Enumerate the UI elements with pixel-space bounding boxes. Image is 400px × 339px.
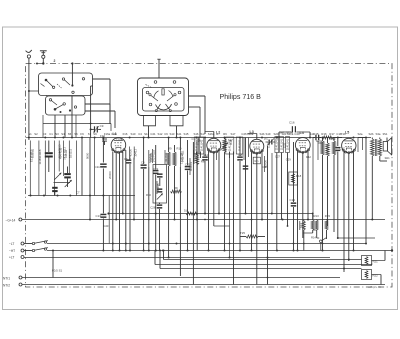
svg-text:1B1111: 1B1111	[68, 149, 72, 158]
svg-text:9000: 9000	[85, 152, 89, 159]
wire v mid168	[168, 275, 170, 277]
labels component row	[28, 132, 388, 136]
svg-text:F16a: F16a	[104, 132, 111, 136]
terminal G14	[6, 218, 22, 222]
wire bus NTr1	[22, 277, 340, 279]
capacitor C10	[100, 134, 123, 145]
svg-text:R6: R6	[223, 132, 227, 136]
coil S19	[275, 137, 279, 251]
svg-text:C25: C25	[185, 163, 190, 167]
wire bus HT cont	[47, 250, 392, 252]
resistor S14	[302, 220, 305, 251]
coil S12b	[152, 149, 156, 163]
svg-text:C26: C26	[238, 153, 243, 157]
node fuse joint	[52, 250, 54, 252]
rotary switch box inner	[143, 88, 185, 112]
wire step 226	[287, 225, 289, 227]
svg-text:S16: S16	[196, 139, 201, 143]
wire v54	[53, 141, 55, 196]
node earth-chassis junction	[42, 62, 44, 64]
wire bus G14	[22, 219, 385, 221]
svg-text:R13: R13	[314, 214, 320, 218]
rotary dash mark	[146, 85, 152, 88]
svg-text:10411: 10411	[133, 149, 137, 157]
wire R16 to L5	[333, 137, 342, 139]
labels vertical values	[32, 137, 287, 162]
rotary pin 1	[154, 81, 157, 84]
label 20000	[108, 171, 112, 179]
wire osc v1	[192, 142, 194, 285]
wire rotary right 2	[189, 107, 201, 138]
chassis dash-dot boundary	[26, 64, 392, 288]
wire sw drop 4	[71, 96, 73, 138]
svg-text:S4: S4	[61, 132, 65, 136]
tube L2	[207, 138, 221, 153]
svg-text:C16: C16	[289, 120, 295, 124]
svg-text:R16a: R16a	[316, 139, 323, 143]
labels R13 R15	[311, 214, 330, 240]
label Philips 716 B	[220, 93, 262, 101]
switch contact i	[60, 111, 62, 113]
rotary lever 1	[149, 94, 158, 101]
wire v45	[44, 141, 46, 196]
wire antenna lead down	[28, 58, 39, 140]
svg-text:S+6: S+6	[279, 131, 284, 135]
switch contact e	[41, 84, 45, 87]
svg-text:1411-4111: 1411-4111	[181, 150, 184, 162]
node bus joints A	[122, 213, 273, 215]
svg-text:C19: C19	[290, 198, 296, 202]
switch contact c	[71, 84, 74, 93]
svg-text:11111: 11111	[268, 141, 271, 148]
svg-text:S17: S17	[228, 138, 233, 142]
svg-text:40000: 40000	[129, 149, 133, 157]
rotary pin 5	[149, 103, 152, 106]
resistor R6v	[223, 138, 226, 251]
svg-text:R17: R17	[329, 132, 335, 136]
capacitor C14	[202, 138, 208, 214]
svg-text:S17: S17	[201, 132, 206, 136]
wire v103 ext	[102, 220, 104, 251]
terminal NTr1	[3, 276, 22, 280]
wire v318 stub	[317, 141, 319, 160]
capacitor C4b	[141, 138, 147, 251]
coil S20	[279, 137, 283, 220]
resistor R17	[321, 138, 324, 251]
capacitor C1	[45, 141, 53, 173]
coil S2b primary	[371, 138, 375, 220]
svg-text:C6: C6	[164, 132, 168, 136]
svg-text:5,8: 5,8	[184, 209, 188, 213]
wire S2a link	[358, 138, 366, 244]
wire rotary leg drop 1	[148, 126, 150, 138]
wire sw drop 1	[46, 95, 48, 98]
wire v358 stub	[357, 138, 359, 153]
svg-text:R10: R10	[146, 193, 151, 197]
wire osc drops a	[130, 158, 134, 251]
wire bus LTminus	[24, 243, 32, 245]
label T25	[240, 231, 245, 235]
capacitor C16	[279, 120, 310, 132]
wire F9 drop	[81, 138, 83, 196]
wire v88	[89, 196, 91, 220]
wire L3 grid	[248, 134, 257, 140]
coil S3a secondary	[378, 138, 387, 162]
svg-text:C20: C20	[104, 224, 109, 228]
wire v229 ext	[229, 158, 231, 258]
svg-text:R22: R22	[373, 274, 379, 278]
capacitor C15	[313, 135, 321, 141]
resistor R20	[332, 138, 335, 233]
rotary switch box outer	[138, 78, 189, 116]
rotary switch leg right	[170, 116, 183, 126]
svg-text:10n: 10n	[254, 160, 259, 163]
svg-text:L4: L4	[300, 131, 304, 135]
switch LT1	[32, 241, 48, 245]
resistor R14b	[315, 220, 319, 239]
capacitor C11	[95, 163, 107, 169]
tube L3	[250, 139, 264, 154]
trimmer C23 box	[153, 165, 167, 204]
capacitor C19	[290, 142, 297, 251]
node extra joints	[148, 219, 323, 279]
wire R21 link	[372, 251, 386, 261]
svg-text:2: 2	[54, 59, 56, 63]
speaker	[383, 138, 391, 155]
switch contact h	[69, 106, 77, 112]
node bus joints G	[89, 219, 373, 221]
wire rail stub left	[26, 137, 28, 139]
wire det drop272	[271, 153, 273, 214]
wire sw drop 2	[43, 96, 55, 138]
wire IF1 drops	[197, 152, 201, 159]
svg-text:C11: C11	[95, 165, 101, 169]
svg-text:C4: C4	[138, 132, 142, 136]
label 9000	[85, 152, 89, 159]
earth terminal	[40, 51, 47, 64]
wire bus LT1 cont	[47, 243, 367, 245]
wire left cluster bus	[28, 195, 135, 197]
svg-text:F9: F9	[80, 132, 84, 136]
resistor R13	[311, 214, 314, 234]
switch contact a	[45, 79, 55, 89]
coil S17	[199, 137, 204, 154]
wire bus NTr2	[22, 284, 385, 286]
labels small refs	[76, 137, 336, 197]
svg-text:1111: 1111	[284, 142, 287, 148]
wire C13 drop	[102, 196, 104, 220]
svg-text:111B11111B: 111B11111B	[38, 149, 42, 164]
label R6b	[192, 137, 205, 163]
wire L1 pins down	[113, 150, 126, 251]
switch LT2	[32, 248, 48, 252]
coil S11b	[148, 150, 152, 251]
label row2	[196, 137, 323, 143]
coil S5 text	[68, 141, 72, 167]
antenna terminal	[26, 50, 32, 58]
coil S1 text	[29, 141, 33, 172]
svg-text:20000: 20000	[108, 171, 112, 179]
switch contact g	[54, 103, 66, 111]
svg-text:R15: R15	[325, 214, 331, 218]
svg-text:C17: C17	[336, 132, 342, 136]
svg-text:S16: S16	[194, 132, 199, 136]
trimmer T1	[54, 173, 61, 180]
coil S13b	[180, 138, 198, 277]
wire sw right 2	[91, 86, 93, 138]
resistor 9000 vtext	[89, 138, 91, 196]
svg-text:C13: C13	[96, 214, 102, 218]
wire osc v2	[196, 142, 198, 220]
coil S9b	[129, 147, 133, 160]
svg-text:C22: C22	[153, 167, 158, 171]
svg-text:Philips 716 B: Philips 716 B	[220, 93, 262, 101]
coil S21	[285, 137, 289, 227]
svg-text:R10: R10	[177, 147, 182, 151]
coil S16	[194, 137, 199, 154]
switch contact det	[320, 238, 327, 243]
wire main rail	[28, 137, 371, 139]
wire v216 stub	[216, 153, 218, 161]
wire v76	[75, 141, 77, 196]
svg-text:R12: R12	[306, 155, 311, 159]
wire sw drop 3	[64, 115, 66, 138]
coil S3 text	[58, 141, 62, 167]
terminal HTminus	[9, 249, 24, 253]
wire left drops2	[30, 167, 69, 196]
svg-text:11411141: 11411141	[237, 139, 241, 151]
capacitor C23	[156, 173, 162, 194]
svg-text:S2b: S2b	[369, 132, 374, 136]
svg-text:411431: 411431	[164, 152, 168, 162]
capacitor C12	[126, 159, 132, 163]
rotary wiper arcs	[154, 91, 173, 110]
transformer core	[375, 139, 376, 156]
svg-text:C6: C6	[124, 157, 128, 161]
capacitor C13	[96, 214, 107, 218]
trimmer IF2	[221, 143, 228, 150]
wire v109	[108, 196, 110, 244]
label signature	[368, 285, 381, 289]
rotary pin 6	[175, 103, 178, 106]
svg-text:S1: S1	[28, 132, 32, 136]
svg-text:414411: 414411	[65, 149, 68, 158]
tube L1	[111, 138, 126, 154]
svg-text:S7: S7	[88, 132, 92, 136]
svg-text:3Ω1: 3Ω1	[385, 156, 391, 160]
svg-text:S12a: S12a	[286, 131, 293, 135]
capacitor C28	[150, 203, 162, 251]
capacitor C17	[335, 138, 345, 239]
rotary detent	[162, 89, 164, 95]
svg-text:4144B: 4144B	[156, 183, 160, 191]
resistor R9	[164, 138, 170, 258]
resistor R21	[362, 256, 379, 266]
svg-text:C21: C21	[150, 132, 156, 136]
svg-text:C4: C4	[141, 161, 145, 165]
tube L5	[342, 138, 356, 153]
svg-text:S2a: S2a	[358, 132, 363, 136]
switch contact f	[49, 99, 57, 105]
wire sw right 4	[85, 111, 115, 128]
rotary pin 2	[173, 81, 176, 84]
wire bus LTplus	[24, 257, 330, 259]
capacitor C24	[157, 188, 163, 199]
svg-text:S3: S3	[55, 132, 59, 136]
svg-text:4144411: 4144411	[150, 152, 153, 162]
svg-text:C14: C14	[203, 153, 208, 157]
terminal NTr2	[3, 283, 22, 287]
node rail dots	[28, 137, 367, 139]
wire sw drop 5	[75, 115, 77, 138]
resistor R10	[173, 145, 176, 220]
wire step 238	[321, 237, 375, 251]
capacitor C22	[153, 145, 159, 251]
coil S18	[236, 137, 243, 154]
terminal LTplus	[9, 256, 24, 260]
resistor R15	[325, 220, 328, 240]
wire stub 248	[248, 138, 250, 158]
svg-text:NTr2: NTr2	[3, 283, 10, 287]
label L4	[300, 131, 304, 135]
wire C16 sides	[279, 132, 310, 138]
svg-text:S12: S12	[158, 132, 163, 136]
svg-text:S17: S17	[231, 132, 236, 136]
capacitor C10b	[52, 187, 58, 192]
capacitor C18	[243, 156, 268, 172]
svg-text:S9: S9	[93, 132, 97, 136]
wire bank connector	[312, 213, 317, 231]
svg-text:C9: C9	[100, 124, 104, 128]
wire loop 268	[159, 250, 362, 270]
wire sw right 3	[85, 104, 110, 124]
svg-text:T25: T25	[240, 231, 245, 235]
svg-text:L5: L5	[345, 131, 349, 135]
labels S4b S12a	[279, 131, 293, 135]
svg-text:L2: L2	[216, 131, 220, 135]
label L1	[113, 132, 117, 136]
svg-text:111-4-1111B: 111-4-1111B	[59, 144, 62, 158]
wire fuse drop	[52, 251, 63, 278]
svg-text:NTr1: NTr1	[3, 276, 10, 280]
label S14 vert	[299, 221, 303, 230]
label 5.8 resistor	[184, 209, 198, 215]
wire L2 grid	[205, 132, 214, 139]
wire L4 pins	[298, 151, 309, 251]
rotary pin 3	[146, 91, 149, 94]
svg-text:S2: S2	[34, 132, 38, 136]
svg-text:S13: S13	[170, 132, 175, 136]
wire l2 cath drop	[214, 225, 230, 227]
wire wave-switch stem	[157, 59, 160, 78]
wire S9 drop	[94, 138, 96, 196]
resistor R7 cath	[196, 152, 199, 251]
switch contact b	[62, 78, 70, 85]
wire stub 244	[243, 138, 245, 161]
resistor R22	[362, 270, 379, 280]
svg-text:R9: R9	[168, 147, 172, 151]
capacitor C26	[237, 138, 243, 251]
coil S17b	[226, 137, 234, 154]
svg-text:L1: L1	[113, 132, 117, 136]
resistor R16	[322, 136, 333, 139]
svg-text:−G+14: −G+14	[6, 218, 16, 222]
resistor R11h	[171, 186, 182, 193]
label L2	[216, 131, 220, 135]
svg-text:w.Rcp v. W: w.Rcp v. W	[368, 285, 381, 289]
label speaker	[385, 156, 391, 160]
wire link182	[54, 182, 71, 184]
wire L2 pins	[209, 151, 220, 251]
node left bus joints	[30, 195, 105, 197]
wire bus HT	[24, 250, 32, 252]
label L3	[250, 130, 254, 134]
svg-text:C28: C28	[150, 205, 156, 209]
svg-text:R9: R9	[174, 186, 178, 190]
svg-text:R14: R14	[311, 235, 316, 239]
svg-text:11411141: 11411141	[275, 138, 279, 150]
trimmer T2	[65, 180, 72, 187]
svg-text:C18: C18	[262, 165, 267, 169]
label L5	[345, 131, 349, 135]
wire v316 c15	[312, 138, 314, 220]
svg-text:S14: S14	[299, 223, 303, 228]
svg-text:S5: S5	[68, 132, 72, 136]
svg-text:C27: C27	[275, 155, 280, 159]
svg-text:S10: S10	[131, 132, 136, 136]
switch contact d	[57, 78, 85, 88]
wire bus A	[104, 212, 314, 228]
wire sw bottom link	[43, 123, 111, 131]
svg-text:C3: C3	[43, 132, 47, 136]
rotary switch leg left	[144, 116, 156, 126]
wire v 245	[245, 138, 247, 214]
wire R22 link	[372, 275, 382, 285]
svg-text:C1: C1	[49, 132, 53, 136]
svg-text:R18: R18	[296, 174, 302, 178]
svg-text:C7: C7	[76, 191, 80, 195]
svg-text:C29: C29	[286, 158, 291, 162]
coil S10b	[133, 147, 137, 160]
wire chassis to box1	[36, 62, 74, 84]
svg-text:S6: S6	[74, 132, 78, 136]
svg-text:S41: S41	[177, 132, 182, 136]
rotary lever 4	[166, 104, 172, 112]
switch box S-II	[46, 96, 86, 115]
svg-text:S15: S15	[184, 132, 189, 136]
wire rotary leg drop 2	[176, 126, 178, 138]
node HT right end	[391, 249, 393, 251]
svg-text:F0,5 S1: F0,5 S1	[52, 269, 63, 273]
capacitor C25	[185, 140, 191, 251]
node bus joints HT	[102, 250, 354, 252]
resistor R18 box	[289, 172, 302, 185]
wire C11 drop	[102, 138, 104, 196]
rotary lever 2	[167, 94, 176, 101]
coil S2 text	[38, 141, 42, 174]
wire L5 pins	[344, 151, 354, 273]
svg-text:R6: R6	[201, 160, 205, 164]
wire rotary right 1	[189, 96, 206, 134]
wire sw right 1	[93, 79, 111, 123]
svg-text:R21: R21	[373, 260, 379, 264]
wire L3 pins	[252, 152, 263, 285]
capacitor C30 trimmer	[266, 139, 276, 285]
resistor R19	[326, 138, 329, 227]
svg-text:−HT: −HT	[9, 249, 15, 253]
rotary pin 4	[178, 91, 181, 94]
resistor T25h	[240, 235, 265, 238]
